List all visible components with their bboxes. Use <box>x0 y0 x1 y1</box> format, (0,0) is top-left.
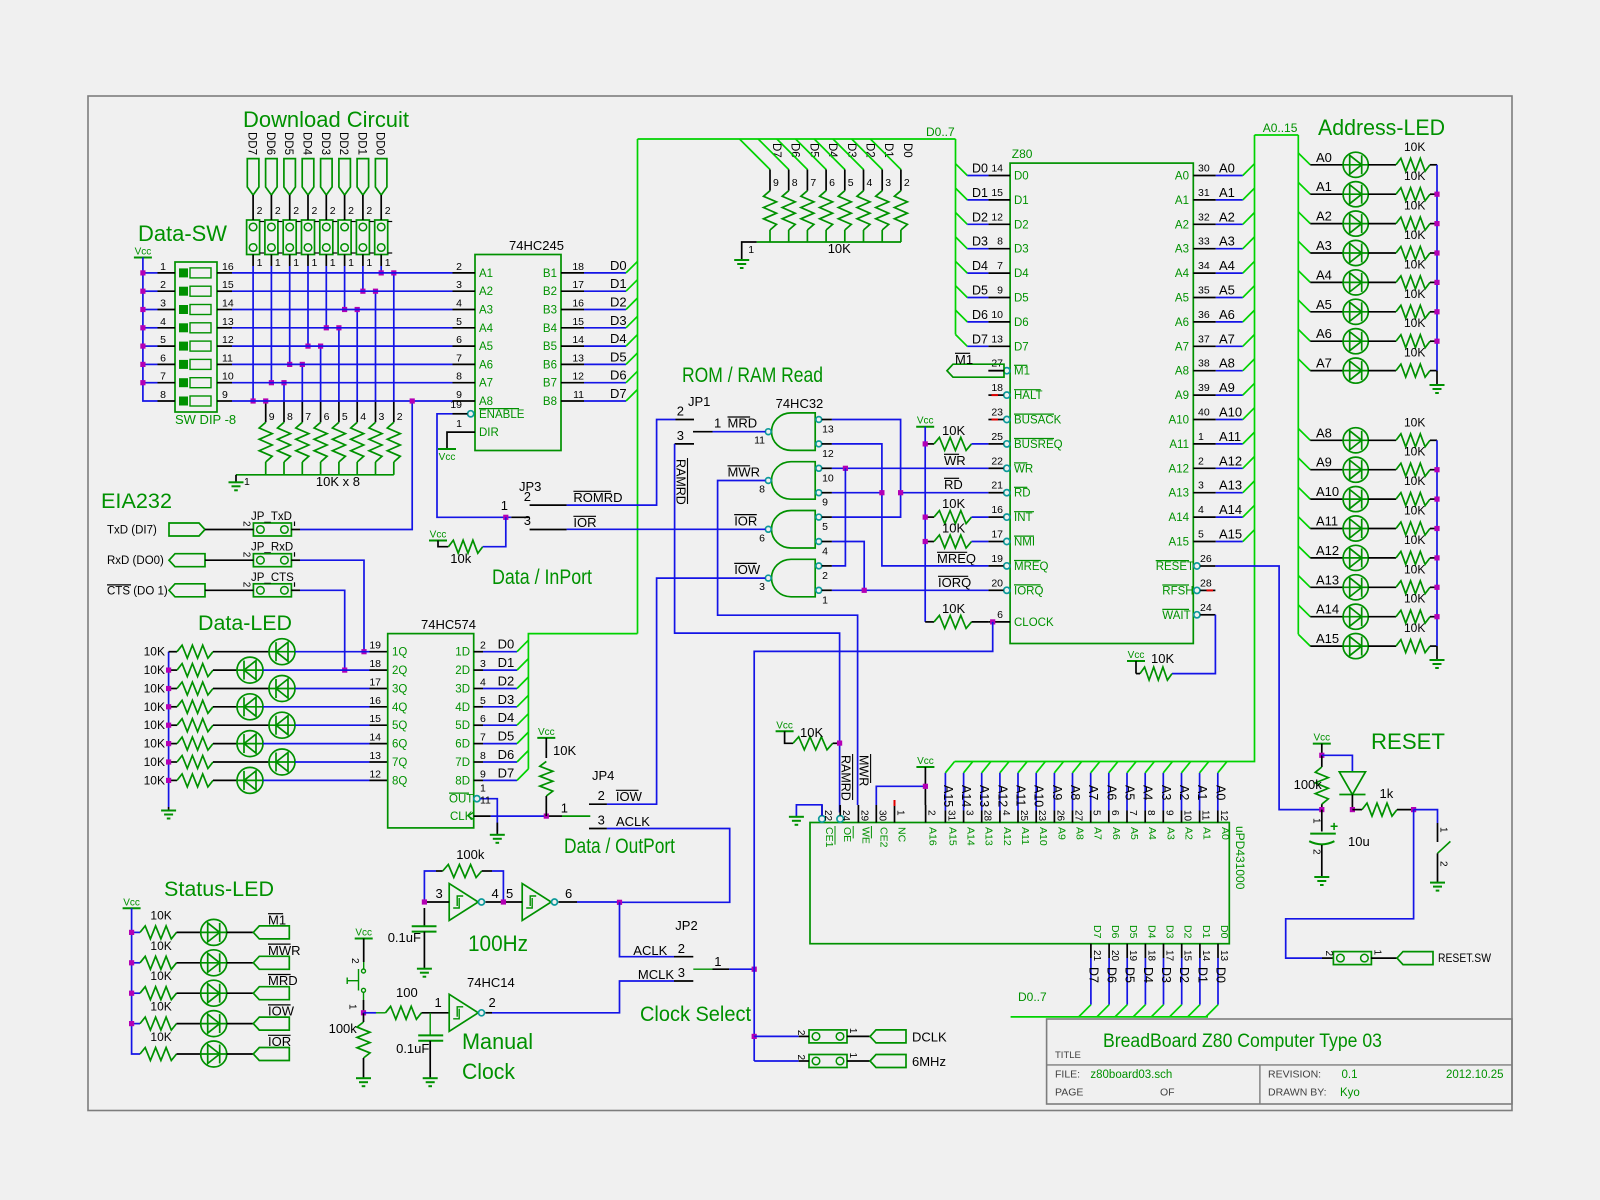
svg-text:11: 11 <box>222 352 233 364</box>
wire RD row (Z80 to gates) <box>901 492 989 494</box>
74HC245 pin A6 (7) <box>453 363 476 365</box>
wire Vcc rail Status-LED <box>132 908 140 1054</box>
resistor 10k (ENABLE pullup) <box>438 541 448 547</box>
svg-text:3D: 3D <box>455 684 470 696</box>
svg-text:10K: 10K <box>1404 346 1425 360</box>
junction CLOCK/DCLK <box>752 967 757 972</box>
svg-text:+: + <box>1330 818 1338 834</box>
svg-text:MREQ: MREQ <box>1014 561 1049 573</box>
wire A8 LED row <box>1310 439 1343 441</box>
Vcc (WAIT pullup) <box>1127 660 1145 662</box>
svg-text:10K: 10K <box>1404 257 1425 271</box>
svg-text:3: 3 <box>677 428 684 443</box>
svg-text:D1: D1 <box>1014 195 1029 207</box>
wire MRD (gate1 out to JP1.1) <box>713 431 766 433</box>
Z80 pin CLOCK (6) <box>988 621 1010 623</box>
svg-text:A2: A2 <box>1183 827 1195 840</box>
svg-text:4D: 4D <box>455 702 470 714</box>
junction A2 rail <box>1434 221 1439 226</box>
wire A7 LED row <box>1310 370 1343 372</box>
svg-text:Vcc: Vcc <box>1313 733 1330 744</box>
resistor 10K (Status MWR) <box>140 956 177 969</box>
resistor 10K pullup NMI <box>925 541 934 543</box>
svg-text:D1: D1 <box>882 143 894 158</box>
wire ACLK net (osc out) <box>559 901 578 903</box>
svg-text:TITLE: TITLE <box>1055 1050 1081 1061</box>
Z80 pin A15 (5) <box>1193 541 1216 543</box>
svg-text:D7: D7 <box>770 143 782 158</box>
svg-text:8: 8 <box>792 177 798 189</box>
wire D1 574 to bus <box>483 669 517 671</box>
svg-text:6MHz: 6MHz <box>912 1054 946 1069</box>
svg-text:23: 23 <box>991 407 1003 419</box>
svg-text:A13: A13 <box>983 827 995 846</box>
RAM pin OE (24) <box>837 816 844 823</box>
wire gate1.12 down to MREQ <box>832 444 989 566</box>
bus entry A13 (LED) <box>1298 576 1310 588</box>
bus entry A1 (LED) <box>1298 182 1310 194</box>
svg-text:28: 28 <box>1200 577 1212 589</box>
svg-text:Vcc: Vcc <box>917 756 934 767</box>
wire OUT to ground <box>480 799 497 832</box>
bus entry D7 <box>626 390 638 402</box>
wire D5 (RAM to bus) <box>1126 958 1128 1005</box>
svg-text:D1: D1 <box>1195 967 1209 983</box>
bus entry A7 <box>1243 335 1255 347</box>
74HC245 pin B5 (14) <box>561 345 584 347</box>
resistor 100k (RESET) <box>1321 755 1323 767</box>
led LED8 (Data-LED) <box>213 779 237 781</box>
bus entry A7 (RAM) <box>1091 762 1100 773</box>
svg-text:10K: 10K <box>1404 316 1425 330</box>
junction Status rail M1 <box>129 930 134 935</box>
svg-text:D6: D6 <box>610 368 627 383</box>
wire D7 (RAM to bus) <box>1090 958 1092 1005</box>
wire 4Q row <box>263 706 370 708</box>
svg-text:8Q: 8Q <box>392 775 407 787</box>
bus entry A3 (LED) <box>1298 241 1310 253</box>
wire DD6 jumper to data row <box>270 266 272 383</box>
svg-text:D0: D0 <box>1214 967 1228 983</box>
svg-text:A1: A1 <box>1316 179 1332 194</box>
svg-text:1: 1 <box>312 257 318 269</box>
svg-text:3: 3 <box>160 298 166 310</box>
bus D0..7 right vertical (to Z80) <box>955 139 957 335</box>
svg-text:A6: A6 <box>1219 307 1235 322</box>
svg-text:1: 1 <box>434 995 441 1010</box>
svg-text:A2: A2 <box>1175 219 1189 231</box>
wire D3 bus to Z80 <box>956 237 968 249</box>
svg-text:5: 5 <box>1198 529 1204 541</box>
svg-text:10k: 10k <box>450 551 471 566</box>
junction 100k bottom <box>1319 807 1324 812</box>
svg-text:D0: D0 <box>1014 171 1029 183</box>
svg-text:IOW: IOW <box>616 789 643 804</box>
svg-text:14: 14 <box>572 334 584 346</box>
svg-text:OUT: OUT <box>449 794 473 806</box>
wire 1Q row <box>295 651 370 653</box>
wire IOW (gate4 out to JP4.2) <box>607 578 766 804</box>
svg-text:4: 4 <box>160 316 166 328</box>
junction DD0 <box>379 270 384 275</box>
svg-text:DD0: DD0 <box>374 132 386 155</box>
led LED (A15) <box>1343 634 1368 659</box>
Z80 pin A0 (30) <box>1193 175 1216 177</box>
ground (RESET cap) <box>1314 876 1329 878</box>
bus entry A2 (RAM) <box>1182 762 1191 773</box>
svg-text:7: 7 <box>160 371 166 383</box>
bus entry A4 <box>1243 261 1255 273</box>
junction rail 5Q <box>166 723 171 728</box>
svg-text:10K: 10K <box>1404 504 1425 518</box>
svg-text:2: 2 <box>524 489 531 504</box>
junction RD <box>898 490 903 495</box>
junction A4 rail <box>1434 280 1439 285</box>
svg-text:2: 2 <box>275 205 281 217</box>
wire data rows DIP to 74HC245 <box>232 272 453 274</box>
led LED (A5) <box>1343 299 1368 324</box>
svg-text:A14: A14 <box>1316 602 1339 617</box>
svg-text:NC: NC <box>896 827 908 843</box>
svg-text:4: 4 <box>1000 810 1011 816</box>
bus entry (pullup D3) <box>814 139 845 170</box>
RAM pin A6 (6) <box>1108 811 1110 823</box>
ground (osc cap) <box>417 968 432 970</box>
svg-text:RxD (DO0): RxD (DO0) <box>107 555 164 567</box>
svg-text:D6: D6 <box>789 143 801 158</box>
switch SW-PB (RESET) <box>1414 810 1438 823</box>
resistor 10K (A9) <box>1368 469 1396 471</box>
resistor 10K (Data-LED 2) <box>169 669 177 671</box>
svg-text:A9: A9 <box>1219 380 1235 395</box>
switch S1 SW DIP-8 <box>175 262 217 412</box>
svg-text:1: 1 <box>1311 818 1322 824</box>
svg-text:13: 13 <box>222 316 234 328</box>
svg-text:10K: 10K <box>1404 287 1425 301</box>
svg-text:D1: D1 <box>610 276 627 291</box>
bus entry D4 (574) <box>517 714 528 726</box>
Z80 pin BUSREQ (25) <box>1004 441 1010 447</box>
flag RESET.SW <box>1397 952 1433 965</box>
wire gate3.4 to IORQ <box>832 542 864 591</box>
wire D2 bus to Z80 <box>956 213 968 225</box>
svg-text:CE2: CE2 <box>877 827 889 848</box>
resistor 1k (RESET) <box>1352 809 1362 811</box>
wire A15 LED row <box>1310 645 1343 647</box>
svg-text:D3: D3 <box>845 143 857 158</box>
svg-text:9: 9 <box>222 389 228 401</box>
wire ACLK to JP2.2 <box>620 902 675 956</box>
svg-text:10K x 8: 10K x 8 <box>316 474 360 489</box>
svg-text:Data / InPort: Data / InPort <box>492 566 592 589</box>
junction MREQ/gate2.9 <box>879 490 884 495</box>
wire DD4 jumper to data row <box>307 266 309 346</box>
led LED (A1) <box>1343 182 1368 207</box>
wire IORQ row <box>832 589 989 591</box>
RAM pin D0 (13) <box>1217 944 1219 958</box>
74HC574 pin 3D (4) <box>474 688 483 690</box>
svg-text:A0: A0 <box>1219 161 1235 176</box>
junction CLOCK <box>990 619 995 624</box>
flag M1 <box>947 364 1004 377</box>
led LED6 (Data-LED) <box>213 743 237 745</box>
junction A3 rail <box>1434 250 1439 255</box>
svg-text:10: 10 <box>991 309 1003 321</box>
svg-text:IORQ: IORQ <box>938 575 971 590</box>
junction A6 rail <box>1434 339 1439 344</box>
RAM pin A3 (9) <box>1162 811 1164 823</box>
buffer U2 74HC245 <box>475 255 561 451</box>
resistor 10K (WAIT pullup) <box>1140 667 1172 680</box>
led LED (Status MRD) <box>177 992 201 994</box>
wire D7 574 to bus <box>483 779 517 781</box>
svg-text:A14: A14 <box>959 785 973 807</box>
svg-text:6: 6 <box>324 411 330 423</box>
svg-text:A0: A0 <box>1219 827 1231 840</box>
wire D0 245 to bus <box>584 272 626 274</box>
svg-text:20: 20 <box>991 577 1003 589</box>
svg-text:Vcc: Vcc <box>430 530 447 541</box>
Z80 pin A2 (32) <box>1193 223 1216 225</box>
svg-text:3: 3 <box>379 411 385 423</box>
svg-text:RD: RD <box>1014 488 1031 500</box>
wire A5 to bus (RAM) <box>1126 773 1128 811</box>
svg-text:A11: A11 <box>1019 827 1031 845</box>
svg-text:19: 19 <box>450 399 462 411</box>
svg-text:2: 2 <box>822 570 828 582</box>
svg-text:10K: 10K <box>1404 562 1425 576</box>
wire D1 bus to Z80 <box>956 188 968 200</box>
resistor 10K (Data-LED 7) <box>169 761 177 763</box>
svg-text:DCLK: DCLK <box>912 1029 947 1044</box>
svg-text:BreadBoard Z80 Computer Type 0: BreadBoard Z80 Computer Type 03 <box>1103 1031 1382 1052</box>
resistor 10K (A7) <box>1368 370 1396 372</box>
wire A4 to bus (RAM) <box>1144 773 1146 811</box>
svg-text:A14: A14 <box>1219 502 1242 517</box>
junction Status rail MRD <box>129 991 134 996</box>
74HC574 pin 6D (7) <box>474 743 483 745</box>
wire A3 Z80 to bus <box>1216 248 1243 250</box>
ground (Data-LED) <box>161 810 176 812</box>
jumper JP (DD4) <box>302 220 315 255</box>
flag IOR <box>227 1053 254 1055</box>
svg-text:21: 21 <box>991 480 1003 492</box>
RAM pin A2 (10) <box>1181 811 1183 823</box>
bus A0..15 top link <box>1255 134 1299 136</box>
svg-text:3: 3 <box>598 813 605 828</box>
svg-text:2: 2 <box>330 205 336 217</box>
wire A3 LED row <box>1310 252 1343 254</box>
SW DIP-8 pins left 1-8 <box>158 272 176 274</box>
RAM pin CE1 (22) <box>819 816 826 823</box>
wire D4 bus to Z80 <box>956 261 968 273</box>
ground (OUT) <box>490 834 505 836</box>
Z80 pin A5 (35) <box>1193 297 1216 299</box>
RAM pin A15 (31) <box>944 811 946 823</box>
svg-text:7Q: 7Q <box>392 757 407 769</box>
svg-text:5D: 5D <box>455 720 470 732</box>
svg-text:D5: D5 <box>1123 967 1137 983</box>
bus entry A3 <box>1243 237 1255 249</box>
svg-text:10K: 10K <box>1404 621 1425 635</box>
svg-text:25: 25 <box>991 431 1003 443</box>
bus entry A3 (RAM) <box>1163 762 1172 773</box>
svg-text:DD4: DD4 <box>301 132 313 156</box>
RAM pin A0 (12) <box>1217 811 1219 823</box>
74HC574 pin 5D (6) <box>474 724 483 726</box>
svg-text:24: 24 <box>840 810 851 822</box>
junction A9 rail <box>1434 467 1439 472</box>
led LED (A4) <box>1343 270 1368 295</box>
svg-text:37: 37 <box>1198 333 1210 345</box>
svg-text:A8: A8 <box>1316 425 1332 440</box>
svg-text:D3: D3 <box>1159 967 1173 983</box>
svg-text:A8: A8 <box>1068 785 1082 800</box>
svg-text:A10: A10 <box>1219 405 1242 420</box>
svg-text:74HC32: 74HC32 <box>776 396 824 411</box>
svg-text:5Q: 5Q <box>392 720 407 732</box>
flag DCLK <box>870 1030 906 1043</box>
connector flag RxD (DO0) <box>169 554 205 567</box>
svg-text:A1: A1 <box>1195 785 1209 800</box>
junction DD5 <box>287 362 292 367</box>
svg-text:1: 1 <box>501 498 508 513</box>
svg-text:RESET: RESET <box>1371 729 1445 754</box>
svg-text:9: 9 <box>773 177 779 189</box>
bus A0..15 right vertical <box>1297 135 1299 634</box>
led LED5 (Data-LED) <box>213 724 269 726</box>
wire CTS to 2Q <box>300 590 345 670</box>
svg-text:74HC245: 74HC245 <box>509 238 564 253</box>
Z80 pin M1 (27) <box>1004 368 1010 374</box>
svg-text:Kyo: Kyo <box>1340 1087 1360 1099</box>
svg-text:35: 35 <box>1198 285 1210 297</box>
bus entry (pullup D4) <box>796 139 827 170</box>
svg-text:RD: RD <box>944 477 963 492</box>
svg-text:A2: A2 <box>1177 785 1191 800</box>
svg-text:10K: 10K <box>1151 651 1174 666</box>
svg-text:5: 5 <box>160 334 166 346</box>
bus entry A8 (RAM) <box>1073 762 1082 773</box>
74HC245 pin B2 (17) <box>561 290 584 292</box>
svg-text:2: 2 <box>795 1055 806 1061</box>
svg-text:RAMRD: RAMRD <box>839 755 853 801</box>
svg-text:2: 2 <box>257 205 263 217</box>
svg-text:A15: A15 <box>946 827 958 846</box>
junction A12 rail <box>1434 555 1439 560</box>
svg-text:Vcc: Vcc <box>135 247 152 258</box>
wire DD0 jumper to data row <box>380 266 382 273</box>
svg-text:4: 4 <box>360 411 366 423</box>
svg-text:10K: 10K <box>1404 415 1425 429</box>
svg-text:DRAWN BY:: DRAWN BY: <box>1268 1087 1327 1099</box>
svg-text:A4: A4 <box>1316 267 1332 282</box>
svg-text:IOR: IOR <box>573 515 596 530</box>
connector flag DD6 <box>266 159 278 195</box>
svg-text:31: 31 <box>945 810 956 822</box>
wire A11 LED row <box>1310 528 1343 530</box>
svg-text:6: 6 <box>456 334 462 346</box>
bus entry A12 (RAM) <box>1000 762 1009 773</box>
connector flag DD2 <box>339 159 351 195</box>
svg-text:8: 8 <box>287 411 293 423</box>
svg-text:A2: A2 <box>1316 209 1332 224</box>
svg-text:Data / OutPort: Data / OutPort <box>564 835 675 858</box>
wire A4 LED row <box>1310 281 1343 283</box>
Z80 pin A9 (39) <box>1193 394 1216 396</box>
junction dots Data-SW rail <box>140 270 145 275</box>
wire ENABLE net to JP3 pin1 <box>437 414 511 518</box>
svg-text:10K: 10K <box>828 241 851 256</box>
sheet border frame <box>88 96 1512 1111</box>
wire osc input <box>424 901 449 903</box>
svg-text:19: 19 <box>369 640 381 652</box>
junction ENABLE pullup <box>503 515 508 520</box>
led LED (A0) <box>1343 152 1368 177</box>
ground (CE1) <box>789 816 804 818</box>
wire A1 Z80 to bus <box>1216 199 1243 201</box>
svg-text:A7: A7 <box>1086 785 1100 800</box>
jumper JP_TxD <box>253 523 291 536</box>
bus entry A12 (LED) <box>1298 546 1310 558</box>
svg-text:14: 14 <box>369 732 381 744</box>
wire A13 to bus (RAM) <box>981 773 983 811</box>
svg-text:Data-SW: Data-SW <box>138 221 227 246</box>
junction RA1 pin 2 <box>391 270 396 275</box>
junction RA1 pin 9 <box>263 398 268 403</box>
SW DIP-8 pins right 16-9 <box>217 272 232 274</box>
svg-text:5: 5 <box>506 886 513 901</box>
svg-text:10: 10 <box>1182 810 1193 822</box>
svg-text:6D: 6D <box>455 739 470 751</box>
led LED (A12) <box>1343 545 1368 570</box>
resistor RA1 pin 5 (10K x 8) <box>338 328 340 401</box>
wire RESET.SW row <box>1286 810 1414 959</box>
junction RxD/1Q <box>361 649 366 654</box>
bus entry D3 (574) <box>517 695 528 707</box>
RAM pin D5 (19) <box>1126 944 1128 958</box>
svg-text:M1: M1 <box>268 912 286 927</box>
svg-text:SW DIP -8: SW DIP -8 <box>175 412 236 427</box>
resistor 10K (A5) <box>1368 311 1396 313</box>
svg-text:20: 20 <box>1109 950 1120 962</box>
svg-text:A0: A0 <box>1175 171 1189 183</box>
wire gate4.2 to WR <box>832 468 846 566</box>
svg-text:10K: 10K <box>942 496 965 511</box>
junction rail 7Q <box>166 759 171 764</box>
svg-text:D2: D2 <box>1014 219 1029 231</box>
resistor 10K pullup CLOCK <box>925 621 934 623</box>
svg-text:D0: D0 <box>1218 925 1230 939</box>
led LED (A11) <box>1343 516 1368 541</box>
RAM pin CE2 (30) <box>875 805 877 823</box>
svg-text:A14: A14 <box>965 827 977 846</box>
svg-text:10: 10 <box>222 371 234 383</box>
resistor 10K (A12) <box>1368 557 1396 559</box>
flag 6MHz <box>870 1055 906 1068</box>
resistor RA1 pin 8 (10K x 8) <box>283 383 285 401</box>
svg-text:10K: 10K <box>144 645 165 659</box>
svg-text:29: 29 <box>858 810 869 822</box>
74HC245 pin B1 (18) <box>561 272 584 274</box>
svg-text:2: 2 <box>366 205 372 217</box>
74HC245 pin DIR (1) <box>453 431 476 433</box>
svg-text:MCLK: MCLK <box>638 967 674 982</box>
junction RAMRD pullup <box>837 741 842 746</box>
svg-text:16: 16 <box>222 261 234 273</box>
junction DD7 <box>251 398 256 403</box>
svg-text:22: 22 <box>822 810 833 822</box>
